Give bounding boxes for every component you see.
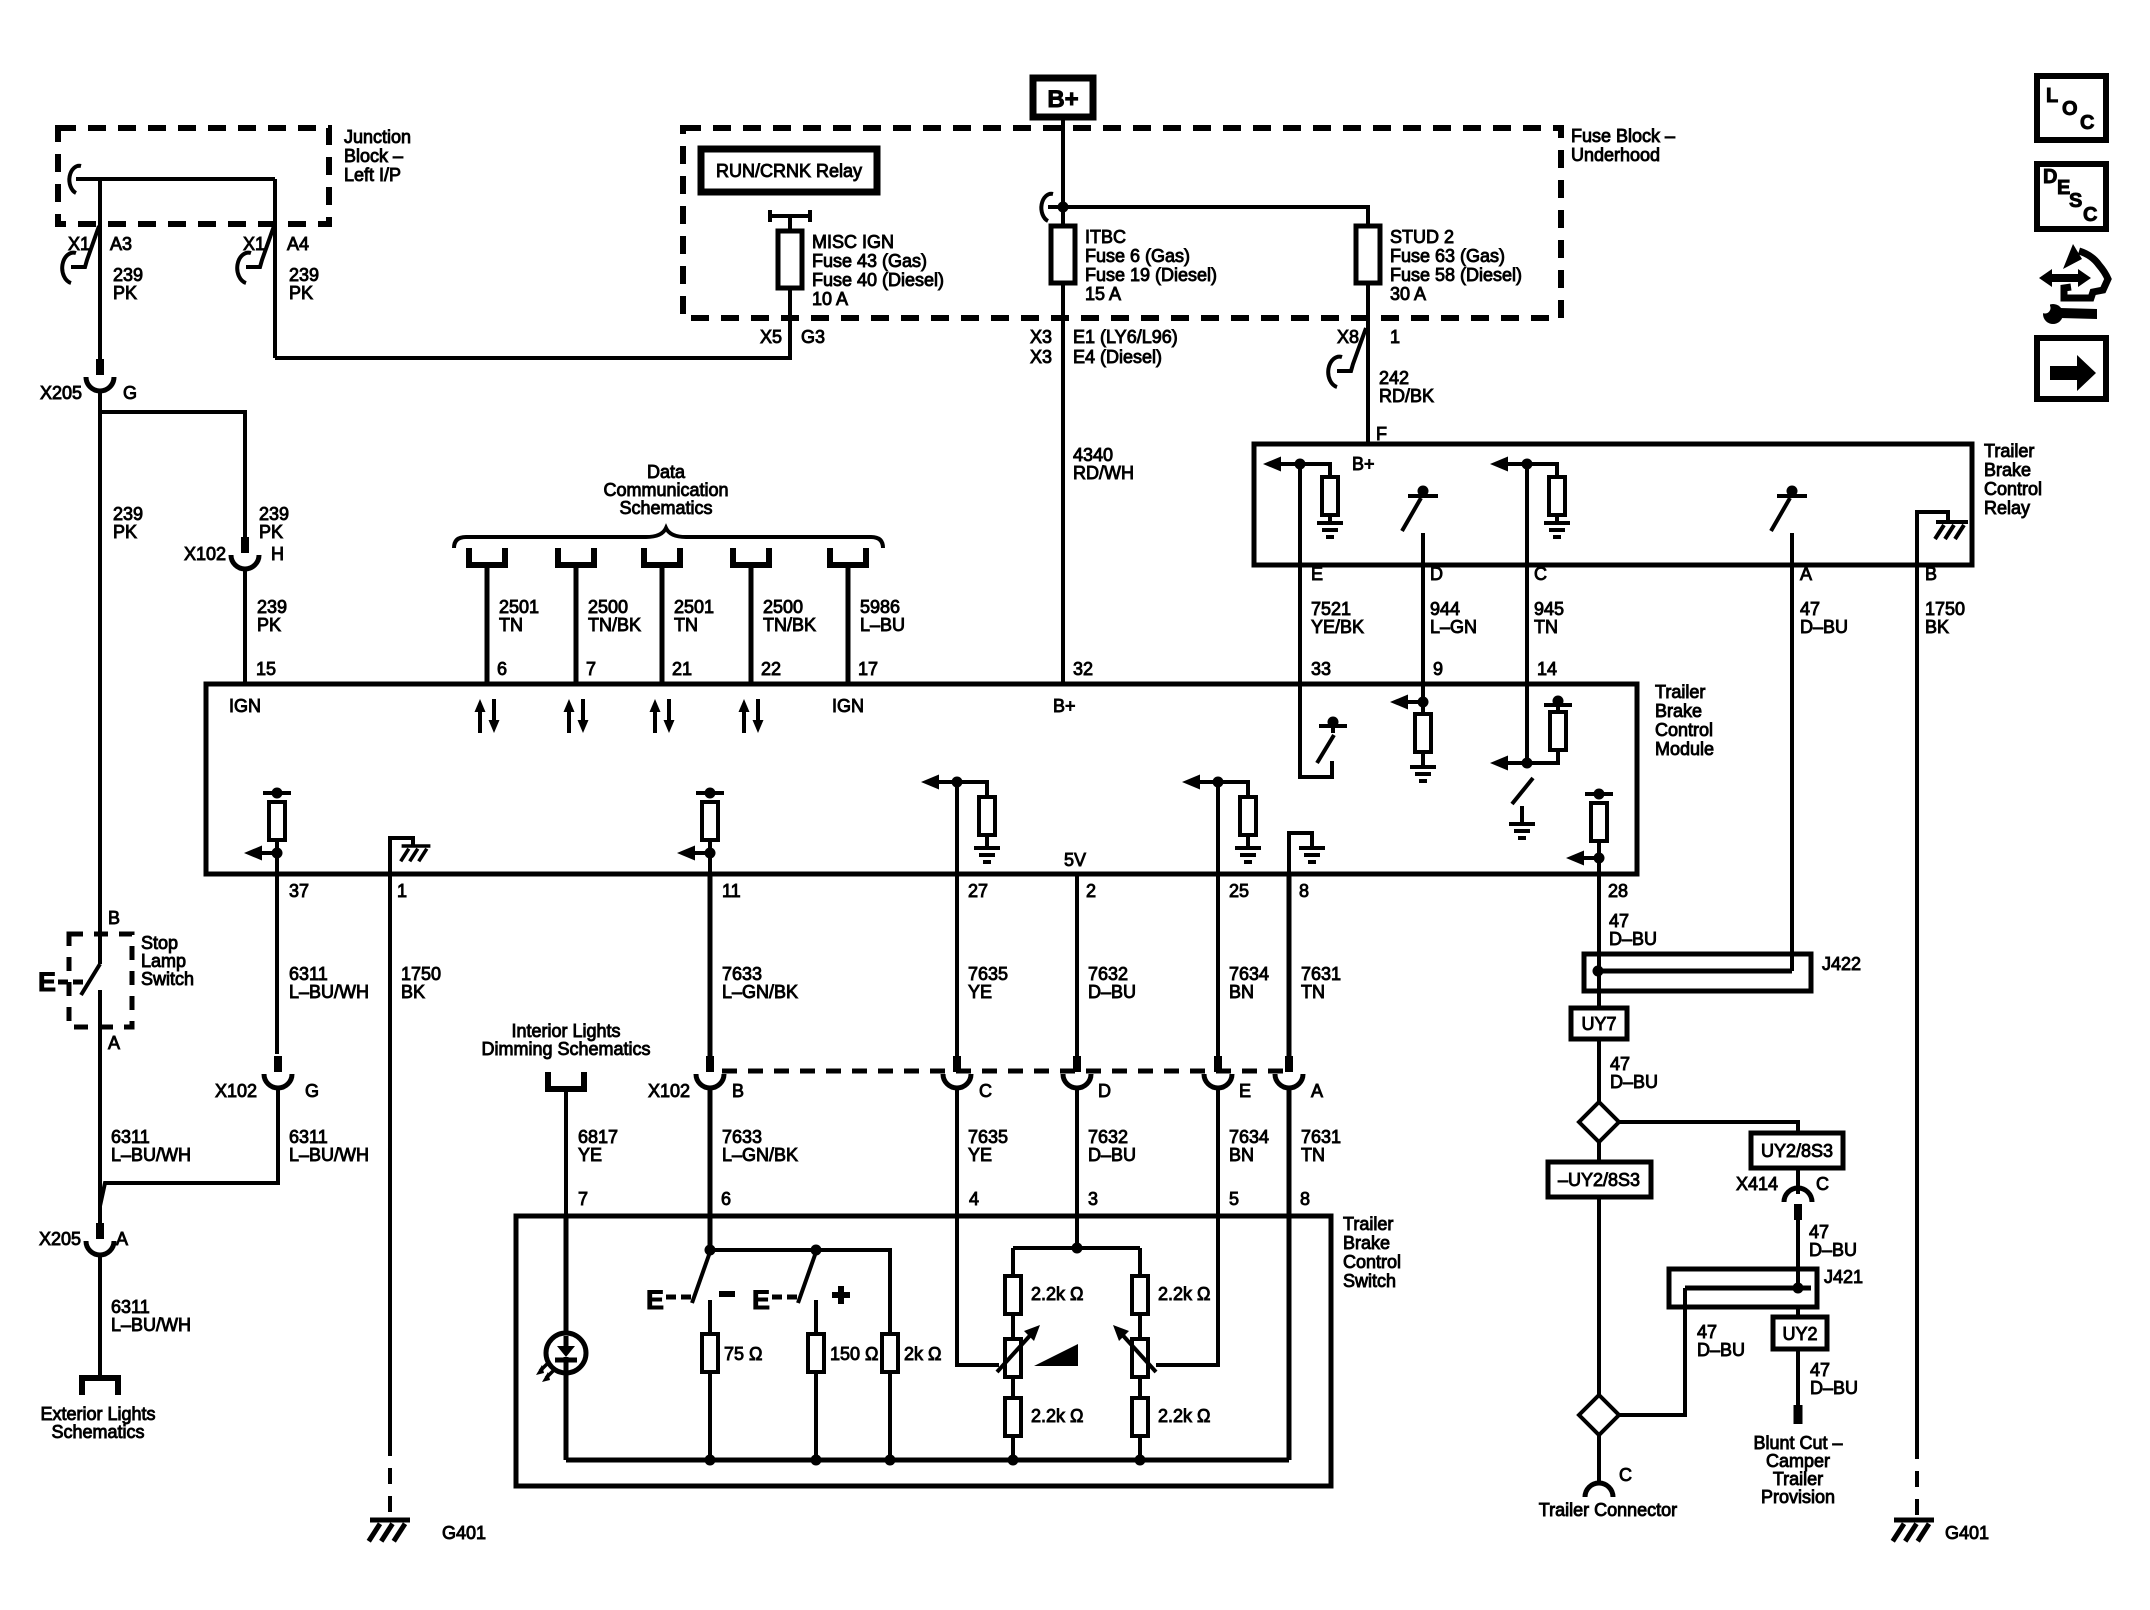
svg-text:O: O bbox=[2062, 98, 2078, 120]
svg-text:7633: 7633 bbox=[722, 964, 762, 984]
svg-text:B+: B+ bbox=[1047, 86, 1078, 113]
module internal pin8: chassis ground hook bbox=[1289, 833, 1325, 874]
junction dot pin3 bbox=[1072, 1243, 1083, 1254]
svg-text:Switch: Switch bbox=[141, 969, 194, 989]
svg-text:B+: B+ bbox=[1053, 696, 1076, 716]
svg-text:Fuse 63 (Gas): Fuse 63 (Gas) bbox=[1390, 246, 1505, 266]
svg-text:J422: J422 bbox=[1822, 954, 1861, 974]
svg-text:47: 47 bbox=[1800, 599, 1820, 619]
ground G401 left bbox=[369, 1520, 486, 1543]
module internal pin11: resistor with arrow bbox=[677, 788, 724, 875]
svg-text:TN/BK: TN/BK bbox=[763, 615, 816, 635]
resistor 75 ohm bbox=[702, 1300, 762, 1460]
potentiometer left bbox=[997, 1314, 1040, 1377]
svg-text:D–BU: D–BU bbox=[1800, 617, 1848, 637]
blunt cut stub bbox=[1794, 1405, 1803, 1424]
svg-text:Schematics: Schematics bbox=[51, 1422, 144, 1442]
wire X102C to switch pin 4 bbox=[955, 1090, 959, 1216]
svg-text:7632: 7632 bbox=[1088, 964, 1128, 984]
svg-text:Junction: Junction bbox=[344, 127, 411, 147]
svg-text:D–BU: D–BU bbox=[1088, 1145, 1136, 1165]
svg-text:47: 47 bbox=[1809, 1222, 1829, 1242]
svg-text:7634: 7634 bbox=[1229, 964, 1269, 984]
wire STUD2 fuse down to relay bbox=[1366, 283, 1370, 444]
module internal pin33: switch to contact bbox=[1300, 684, 1347, 777]
svg-text:Fuse 6 (Gas): Fuse 6 (Gas) bbox=[1085, 246, 1190, 266]
svg-text:PK: PK bbox=[113, 283, 137, 303]
svg-text:G401: G401 bbox=[1945, 1523, 1989, 1543]
svg-text:D: D bbox=[1098, 1081, 1111, 1101]
module internal pin37: resistor with arrow bbox=[244, 788, 291, 875]
wire 2500 TN/BK pin 7 bbox=[574, 565, 579, 684]
data arrows pin 21 bbox=[650, 699, 675, 733]
trailer connector C bbox=[1539, 1465, 1677, 1520]
svg-text:239: 239 bbox=[289, 265, 319, 285]
wire X102D to switch pin 3 bbox=[1075, 1090, 1079, 1216]
svg-text:1: 1 bbox=[1390, 327, 1400, 347]
svg-text:X3: X3 bbox=[1030, 327, 1052, 347]
trailer brake control module box bbox=[206, 684, 1637, 874]
svg-text:A: A bbox=[108, 1033, 120, 1053]
svg-text:Stop: Stop bbox=[141, 933, 178, 953]
resistor 2.2k top right bbox=[1132, 1276, 1210, 1314]
svg-text:Control: Control bbox=[1984, 479, 2042, 499]
svg-text:PK: PK bbox=[289, 283, 313, 303]
module internal pin25: arrow resistor ground bbox=[1182, 775, 1261, 875]
svg-text:37: 37 bbox=[289, 881, 309, 901]
wire pin37 to X102 G bbox=[275, 874, 279, 1054]
splice diamond upper bbox=[1579, 1102, 1619, 1142]
off-page pointer interior lights bbox=[548, 1072, 584, 1089]
svg-text:1750: 1750 bbox=[1925, 599, 1965, 619]
svg-text:242: 242 bbox=[1379, 368, 1409, 388]
wire UY2 to blunt cut bbox=[1796, 1349, 1800, 1405]
wire relay D to module 9 bbox=[1421, 565, 1425, 684]
terminal X5 G3 bbox=[760, 327, 825, 347]
svg-text:47: 47 bbox=[1697, 1322, 1717, 1342]
svg-text:G3: G3 bbox=[801, 327, 825, 347]
svg-text:D–BU: D–BU bbox=[1088, 982, 1136, 1002]
svg-text:Fuse 43 (Gas): Fuse 43 (Gas) bbox=[812, 251, 927, 271]
potentiometer right bbox=[1113, 1314, 1156, 1377]
relay internal ground B bbox=[1917, 512, 1968, 565]
svg-text:B: B bbox=[732, 1081, 744, 1101]
svg-text:B+: B+ bbox=[1352, 454, 1375, 474]
svg-text:32: 32 bbox=[1073, 659, 1093, 679]
svg-text:7521: 7521 bbox=[1311, 599, 1351, 619]
svg-text:D: D bbox=[2043, 166, 2057, 188]
wire diamond down bbox=[1597, 1142, 1601, 1162]
trailer brake control relay box bbox=[1254, 444, 1972, 565]
svg-text:Left I/P: Left I/P bbox=[344, 165, 401, 185]
svg-text:TN/BK: TN/BK bbox=[588, 615, 641, 635]
svg-text:1: 1 bbox=[397, 881, 407, 901]
svg-text:C: C bbox=[979, 1081, 992, 1101]
svg-text:Communication: Communication bbox=[603, 480, 728, 500]
off-page pointer exterior lights bbox=[82, 1378, 118, 1395]
wire relay pin C bbox=[1525, 464, 1529, 565]
svg-text:30 A: 30 A bbox=[1390, 284, 1426, 304]
stop lamp switch dashed box bbox=[69, 934, 132, 1027]
svg-text:PK: PK bbox=[259, 522, 283, 542]
svg-text:IGN: IGN bbox=[832, 696, 864, 716]
terminal hook at ITBC junction bbox=[1048, 205, 1063, 209]
svg-text:RD/BK: RD/BK bbox=[1379, 386, 1434, 406]
svg-text:Blunt Cut –: Blunt Cut – bbox=[1753, 1433, 1842, 1453]
svg-text:Fuse 40 (Diesel): Fuse 40 (Diesel) bbox=[812, 270, 944, 290]
connector code UY7 bbox=[1571, 1008, 1627, 1039]
svg-text:Dimming Schematics: Dimming Schematics bbox=[481, 1039, 650, 1059]
svg-text:D–BU: D–BU bbox=[1809, 1240, 1857, 1260]
svg-text:L–BU/WH: L–BU/WH bbox=[289, 982, 369, 1002]
wire dashed to G401 right bbox=[1915, 1443, 1919, 1515]
terminal X8 1 bbox=[1328, 327, 1400, 387]
switch actuator E dashes bbox=[38, 967, 83, 997]
wire relay E to module 33 bbox=[1298, 565, 1302, 684]
svg-text:X5: X5 bbox=[760, 327, 782, 347]
svg-text:X205: X205 bbox=[39, 1229, 81, 1249]
svg-text:Brake: Brake bbox=[1984, 460, 2031, 480]
svg-text:L–BU/WH: L–BU/WH bbox=[111, 1145, 191, 1165]
fuse block underhood dashed box bbox=[683, 128, 1561, 318]
splice pack J422 bbox=[1584, 954, 1861, 991]
wire X205A down to exterior lights bbox=[98, 1257, 102, 1376]
relay coil E: arrow, node, resistor, ground bbox=[1263, 457, 1343, 538]
svg-text:21: 21 bbox=[672, 659, 692, 679]
svg-text:7634: 7634 bbox=[1229, 1127, 1269, 1147]
svg-text:UY2: UY2 bbox=[1782, 1324, 1817, 1344]
splice pack J421 bbox=[1669, 1267, 1863, 1307]
terminal X1 A3 bbox=[62, 226, 132, 283]
svg-text:B: B bbox=[1925, 564, 1937, 584]
svg-text:D–BU: D–BU bbox=[1697, 1340, 1745, 1360]
svg-text:14: 14 bbox=[1537, 659, 1557, 679]
switch rail bbox=[710, 1250, 890, 1334]
brace over data comm wires bbox=[454, 528, 883, 548]
switch bottom bus bbox=[566, 1458, 1289, 1463]
svg-text:5: 5 bbox=[1229, 1189, 1239, 1209]
svg-text:X3: X3 bbox=[1030, 347, 1052, 367]
svg-text:2k Ω: 2k Ω bbox=[904, 1344, 941, 1364]
svg-text:E: E bbox=[38, 967, 56, 997]
svg-text:YE: YE bbox=[968, 982, 992, 1002]
terminal X3 E1/E4 bbox=[1030, 327, 1178, 367]
svg-text:6311: 6311 bbox=[111, 1297, 150, 1317]
svg-text:27: 27 bbox=[968, 881, 988, 901]
relay switch A bbox=[1771, 486, 1807, 566]
resistor 2k ohm bbox=[882, 1334, 941, 1460]
svg-text:X102: X102 bbox=[648, 1081, 690, 1101]
wire X102B to switch pin 6 bbox=[708, 1090, 713, 1216]
icon DESC box bbox=[2037, 164, 2106, 229]
relay switch D bbox=[1402, 486, 1438, 566]
svg-text:7: 7 bbox=[586, 659, 596, 679]
connector X102 C bbox=[943, 1056, 992, 1101]
svg-text:2500: 2500 bbox=[763, 597, 803, 617]
svg-text:Relay: Relay bbox=[1984, 498, 2030, 518]
svg-text:2501: 2501 bbox=[674, 597, 714, 617]
svg-text:Trailer: Trailer bbox=[1984, 441, 2034, 461]
svg-text:UY7: UY7 bbox=[1581, 1014, 1616, 1034]
wire pin2 to X102 D bbox=[1075, 874, 1079, 1056]
wire pin8 to X102 A bbox=[1287, 874, 1292, 1056]
svg-text:Underhood: Underhood bbox=[1571, 145, 1660, 165]
wire pin4 to wiper bbox=[957, 1216, 999, 1365]
connector X102 B bbox=[648, 1056, 744, 1101]
data arrows pin 7 bbox=[564, 699, 589, 733]
svg-text:IGN: IGN bbox=[229, 696, 261, 716]
icon next arrow box bbox=[2037, 338, 2106, 399]
wire X414 to J421 bbox=[1796, 1220, 1800, 1288]
svg-text:D–BU: D–BU bbox=[1610, 1072, 1658, 1092]
svg-text:G: G bbox=[123, 383, 137, 403]
wire 5986 L-BU pin 17 bbox=[846, 565, 851, 684]
wire 6817 YE bbox=[564, 1089, 568, 1216]
trailer brake control switch box bbox=[516, 1216, 1331, 1486]
wire pin1 1750 BK bbox=[388, 874, 392, 1440]
svg-text:Brake: Brake bbox=[1343, 1233, 1390, 1253]
svg-text:L–BU: L–BU bbox=[860, 615, 905, 635]
off-page pointer pin 7 bbox=[558, 548, 594, 565]
wire pin27 to X102 C bbox=[955, 874, 959, 1056]
wire X102H to module pin 15 bbox=[243, 571, 247, 684]
X102 dashed harness line bbox=[722, 1069, 1289, 1074]
wire pin28 down bbox=[1597, 874, 1601, 1008]
svg-text:8: 8 bbox=[1299, 881, 1309, 901]
connector code -UY2/8S3 bbox=[1548, 1162, 1651, 1197]
wire pin25 to X102 E bbox=[1216, 874, 1220, 1056]
svg-text:7631: 7631 bbox=[1301, 1127, 1341, 1147]
resistor 150 ohm bbox=[808, 1300, 879, 1460]
svg-text:Schematics: Schematics bbox=[619, 498, 712, 518]
svg-text:25: 25 bbox=[1229, 881, 1249, 901]
svg-text:PK: PK bbox=[113, 522, 137, 542]
svg-text:944: 944 bbox=[1430, 599, 1460, 619]
svg-text:E: E bbox=[752, 1285, 770, 1315]
icon harness repair bbox=[2039, 244, 2108, 324]
wire 2501 TN pin 6 bbox=[485, 565, 490, 684]
svg-text:Trailer: Trailer bbox=[1343, 1214, 1393, 1234]
svg-text:X414: X414 bbox=[1736, 1174, 1778, 1194]
connector X102 D bbox=[1063, 1056, 1111, 1101]
svg-text:A4: A4 bbox=[287, 234, 309, 254]
svg-text:5V: 5V bbox=[1064, 850, 1086, 870]
svg-text:ITBC: ITBC bbox=[1085, 227, 1126, 247]
wire pin11 to X102 B bbox=[708, 874, 713, 1056]
svg-text:Exterior Lights: Exterior Lights bbox=[40, 1404, 155, 1424]
svg-text:L: L bbox=[2046, 85, 2058, 107]
svg-text:A: A bbox=[1800, 564, 1812, 584]
svg-text:TN: TN bbox=[499, 615, 523, 635]
svg-text:UY2/8S3: UY2/8S3 bbox=[1761, 1141, 1833, 1161]
wire relay C to module 14 bbox=[1525, 565, 1529, 684]
svg-text:8: 8 bbox=[1300, 1189, 1310, 1209]
svg-text:Control: Control bbox=[1655, 720, 1713, 740]
svg-text:TN: TN bbox=[674, 615, 698, 635]
switch plus contact bbox=[752, 1245, 850, 1316]
wire relay pin E bbox=[1298, 464, 1302, 565]
svg-text:2.2k Ω: 2.2k Ω bbox=[1031, 1406, 1083, 1426]
svg-text:D–BU: D–BU bbox=[1810, 1378, 1858, 1398]
svg-text:2.2k Ω: 2.2k Ω bbox=[1158, 1284, 1210, 1304]
svg-text:L–GN/BK: L–GN/BK bbox=[722, 982, 798, 1002]
svg-text:15: 15 bbox=[256, 659, 276, 679]
svg-text:47: 47 bbox=[1609, 911, 1629, 931]
svg-text:4: 4 bbox=[969, 1189, 979, 1209]
connector code UY2/8S3 bbox=[1751, 1133, 1843, 1168]
module internal pin27: arrow resistor ground bbox=[921, 775, 1000, 875]
wire lower diamond to trailer connector bbox=[1597, 1435, 1601, 1482]
svg-text:7: 7 bbox=[578, 1189, 588, 1209]
svg-text:6: 6 bbox=[721, 1189, 731, 1209]
svg-text:G401: G401 bbox=[442, 1523, 486, 1543]
svg-text:L–BU/WH: L–BU/WH bbox=[111, 1315, 191, 1335]
svg-text:MISC IGN: MISC IGN bbox=[812, 232, 894, 252]
svg-text:X102: X102 bbox=[215, 1081, 257, 1101]
junction ITBC node bbox=[1058, 202, 1069, 213]
ground G401 right bbox=[1893, 1520, 1989, 1543]
svg-text:28: 28 bbox=[1608, 881, 1628, 901]
svg-text:239: 239 bbox=[259, 504, 289, 524]
wire pin8 inside switch bbox=[1287, 1216, 1292, 1460]
module internal pin28: resistor with arrow bbox=[1566, 789, 1613, 875]
off-page pointer pin 6 bbox=[469, 548, 505, 565]
svg-text:22: 22 bbox=[761, 659, 781, 679]
svg-text:TN: TN bbox=[1301, 1145, 1325, 1165]
svg-text:C: C bbox=[1534, 564, 1547, 584]
module internal pin9: arrow resistor ground bbox=[1390, 684, 1436, 781]
svg-text:2: 2 bbox=[1086, 881, 1096, 901]
wire 2501 TN pin 21 bbox=[660, 565, 665, 684]
svg-text:Provision: Provision bbox=[1761, 1487, 1835, 1507]
off-page pointer pin 22 bbox=[733, 548, 769, 565]
svg-text:239: 239 bbox=[257, 597, 287, 617]
off-page pointer pin 21 bbox=[644, 548, 680, 565]
svg-text:D: D bbox=[1430, 564, 1443, 584]
gain ramp triangle bbox=[1034, 1344, 1078, 1366]
svg-text:H: H bbox=[271, 544, 284, 564]
svg-text:A: A bbox=[116, 1229, 128, 1249]
svg-text:Trailer Connector: Trailer Connector bbox=[1539, 1500, 1677, 1520]
off-page pointer pin 17 bbox=[830, 548, 866, 565]
svg-text:C: C bbox=[2083, 204, 2097, 226]
switch minus contact bbox=[646, 1216, 735, 1315]
terminal hook inside junction block bbox=[76, 177, 100, 181]
wire X102E to switch pin 5 bbox=[1216, 1090, 1220, 1216]
svg-text:YE/BK: YE/BK bbox=[1311, 617, 1364, 637]
svg-text:17: 17 bbox=[858, 659, 878, 679]
data arrows pin 22 bbox=[739, 699, 764, 733]
svg-text:X102: X102 bbox=[184, 544, 226, 564]
svg-text:7632: 7632 bbox=[1088, 1127, 1128, 1147]
svg-text:BK: BK bbox=[401, 982, 425, 1002]
svg-text:4340: 4340 bbox=[1073, 445, 1113, 465]
svg-text:6311: 6311 bbox=[289, 964, 328, 984]
svg-text:7633: 7633 bbox=[722, 1127, 762, 1147]
wire diamond to UY2/8S3 branch bbox=[1619, 1122, 1798, 1133]
svg-text:Brake: Brake bbox=[1655, 701, 1702, 721]
svg-text:1750: 1750 bbox=[401, 964, 441, 984]
svg-text:L–GN/BK: L–GN/BK bbox=[722, 1145, 798, 1165]
relay contact symbol bbox=[770, 210, 810, 231]
wire UY7 down bbox=[1597, 1039, 1601, 1103]
svg-text:A: A bbox=[1311, 1081, 1323, 1101]
svg-text:Module: Module bbox=[1655, 739, 1714, 759]
RUN/CRNK relay label box bbox=[701, 149, 877, 192]
wire inside junction block bbox=[84, 177, 275, 181]
svg-text:9: 9 bbox=[1433, 659, 1443, 679]
svg-text:RD/WH: RD/WH bbox=[1073, 463, 1134, 483]
connector X414 C bbox=[1736, 1168, 1829, 1220]
svg-text:S: S bbox=[2069, 190, 2082, 212]
svg-text:33: 33 bbox=[1311, 659, 1331, 679]
svg-text:TN: TN bbox=[1534, 617, 1558, 637]
splice diamond lower bbox=[1579, 1395, 1619, 1435]
svg-text:E: E bbox=[646, 1285, 664, 1315]
svg-text:Fuse 19 (Diesel): Fuse 19 (Diesel) bbox=[1085, 265, 1217, 285]
svg-text:7635: 7635 bbox=[968, 964, 1008, 984]
svg-text:6311: 6311 bbox=[111, 1127, 150, 1147]
svg-text:6311: 6311 bbox=[289, 1127, 328, 1147]
module internal pin14: resistor, arrow, switch to ground bbox=[1490, 684, 1572, 838]
wire relay A to J422 bbox=[1790, 565, 1794, 971]
connector X102 E bbox=[1204, 1056, 1251, 1101]
wire X205G to stop lamp bbox=[98, 412, 102, 934]
svg-text:C: C bbox=[1619, 1465, 1632, 1485]
svg-text:7631: 7631 bbox=[1301, 964, 1341, 984]
svg-text:YE: YE bbox=[578, 1145, 602, 1165]
svg-text:L–GN: L–GN bbox=[1430, 617, 1477, 637]
svg-text:B: B bbox=[108, 908, 120, 928]
svg-text:3: 3 bbox=[1088, 1189, 1098, 1209]
connector X205 G bbox=[40, 359, 137, 403]
svg-text:RUN/CRNK Relay: RUN/CRNK Relay bbox=[716, 161, 862, 181]
fuse ITBC bbox=[1051, 226, 1075, 283]
svg-text:239: 239 bbox=[113, 504, 143, 524]
svg-text:TN: TN bbox=[1301, 982, 1325, 1002]
stop lamp switch contact bbox=[81, 934, 100, 1027]
svg-text:Data: Data bbox=[647, 462, 686, 482]
svg-text:150 Ω: 150 Ω bbox=[830, 1344, 879, 1364]
resistor 2.2k top left bbox=[1005, 1276, 1083, 1314]
svg-text:C: C bbox=[2080, 112, 2094, 134]
wire B+ down bbox=[1061, 117, 1065, 230]
pot top rail bbox=[1013, 1216, 1140, 1276]
svg-text:6817: 6817 bbox=[578, 1127, 618, 1147]
terminal X1 A4 bbox=[237, 226, 309, 283]
svg-text:Fuse 58 (Diesel): Fuse 58 (Diesel) bbox=[1390, 265, 1522, 285]
svg-text:G: G bbox=[305, 1081, 319, 1101]
wire X102A to switch pin 8 bbox=[1287, 1090, 1292, 1216]
wire stop lamp A down bbox=[98, 1027, 102, 1226]
wire -UY2/8S3 to lower diamond bbox=[1597, 1197, 1601, 1396]
data arrows pin 6 bbox=[475, 699, 500, 733]
svg-text:L–BU/WH: L–BU/WH bbox=[289, 1145, 369, 1165]
svg-text:BK: BK bbox=[1925, 617, 1949, 637]
svg-text:Lamp: Lamp bbox=[141, 951, 186, 971]
connector X102 A bbox=[1275, 1056, 1323, 1101]
svg-text:Trailer: Trailer bbox=[1655, 682, 1705, 702]
svg-text:A3: A3 bbox=[110, 234, 132, 254]
connector X102 G (6311) bbox=[215, 1056, 319, 1101]
svg-text:E: E bbox=[1311, 564, 1323, 584]
LED indicator bbox=[536, 1216, 586, 1460]
svg-text:15 A: 15 A bbox=[1085, 284, 1121, 304]
svg-text:239: 239 bbox=[113, 265, 143, 285]
svg-text:D–BU: D–BU bbox=[1609, 929, 1657, 949]
icon LOC box bbox=[2037, 76, 2106, 140]
relay coil C: arrow, node, resistor, ground bbox=[1490, 457, 1570, 538]
